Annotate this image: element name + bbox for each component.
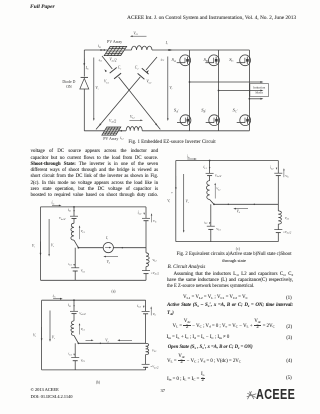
label b iC2: [137, 304, 142, 309]
wire b right edge mid: [145, 314, 147, 344]
svg-text:Vs: Vs: [51, 244, 54, 249]
svg-text:SB: SB: [204, 57, 208, 63]
svg-text:C2: C2: [135, 66, 139, 71]
wire b rail: [78, 342, 145, 344]
caption (c): [236, 247, 241, 251]
heading B. Circuit Analysis: [168, 265, 206, 271]
wire a branch top seg: [73, 207, 75, 216]
wire leg C: [248, 50, 250, 131]
arrowhead a rail current: [121, 247, 123, 249]
junction node a rail left: [78, 247, 80, 249]
label a Ii: [105, 236, 108, 241]
junction node b rail left: [78, 342, 80, 344]
wire a top edge: [41, 206, 147, 208]
capacitor a C1: [71, 268, 79, 271]
label VL1 top: [133, 31, 138, 36]
svg-text:iC2: iC2: [138, 211, 143, 216]
label a Vi: [32, 244, 35, 249]
label Iin: [85, 66, 90, 71]
svg-text:Vdc/2: Vdc/2: [79, 311, 86, 316]
label c VC2: [285, 174, 289, 179]
junction node phase C: [249, 98, 251, 100]
wire c bottom edge: [176, 241, 278, 243]
wire a rail to C1: [74, 248, 76, 268]
svg-text:Ii: Ii: [165, 41, 168, 46]
label SA: [172, 57, 176, 63]
label PV Array top: [107, 39, 122, 44]
arrowhead c iin: [194, 158, 197, 160]
label Vi fig1: [169, 86, 172, 91]
svg-text:(c): (c): [236, 247, 241, 251]
wire a right edge mid: [145, 221, 147, 253]
label a i_in: [52, 201, 56, 206]
svg-text:VL2: VL2: [285, 216, 290, 221]
label b iL1: [68, 303, 71, 308]
wire a bottom edge: [41, 279, 147, 281]
svg-text:SC′: SC′: [233, 108, 238, 114]
wire b C1 to bottom: [74, 361, 76, 370]
label c i_in: [187, 154, 191, 159]
svg-text:VC2: VC2: [146, 80, 152, 85]
label c iL1: [203, 165, 206, 170]
label b VC2: [153, 312, 157, 317]
wire a Vd arrow shaft: [105, 256, 119, 258]
junction node phase B: [218, 90, 220, 92]
arrowhead c iC2 down: [276, 168, 277, 170]
wire a left edge: [40, 207, 42, 280]
junction node phase A: [189, 81, 191, 83]
inductor b L1: [71, 321, 74, 336]
arrowhead phase A: [260, 81, 263, 83]
label b VC1: [81, 358, 86, 363]
arrowhead a iC1 down: [73, 264, 74, 266]
svg-text:VC1: VC1: [81, 269, 86, 274]
label a Vs: [51, 244, 54, 249]
capacitor b C1: [71, 358, 79, 361]
wire diagonal D2 upper: [146, 57, 157, 70]
svg-text:C1: C1: [118, 66, 122, 71]
svg-text:Vdc/2: Vdc/2: [109, 58, 116, 63]
equation 5: [167, 373, 205, 384]
wire c rail to C1: [210, 204, 212, 226]
arrowhead Iin down: [83, 63, 85, 66]
arrowhead c rail current 1: [227, 204, 229, 206]
page number 37: [161, 388, 165, 393]
label PV Array bottom: [103, 136, 118, 141]
wire b rail to C1: [74, 343, 76, 357]
right column paragraph: [174, 272, 294, 278]
transistor SC': [237, 115, 251, 126]
arrowhead c rail current 2: [253, 204, 255, 206]
arrowhead b iC2 down: [143, 306, 145, 308]
heading Active State: [167, 303, 293, 309]
svg-text:VC1: VC1: [81, 358, 86, 363]
arrowhead b VC2 up: [150, 306, 152, 308]
arrowhead c Vs down: [183, 230, 185, 232]
current source Ii: [103, 243, 113, 253]
wire b coil to rbcap: [145, 355, 147, 365]
wire VL1 arrow shaft: [132, 35, 147, 37]
svg-text:=Vdc/2: =Vdc/2: [150, 365, 159, 370]
wire bottom bus right segment: [142, 130, 249, 132]
transistor SB': [206, 115, 220, 126]
wire leg B: [218, 50, 220, 131]
induction motor box: [250, 84, 269, 97]
wire c Vs measure: [183, 174, 185, 231]
arrowhead a iC2 down: [143, 213, 145, 215]
wire c iin arrow shaft: [187, 158, 195, 160]
label c VL2: [285, 216, 290, 221]
svg-text:Vs: Vs: [186, 200, 189, 205]
label a Vdc/2 upper: [59, 216, 66, 221]
svg-text:Motor: Motor: [255, 91, 263, 95]
wire top bus left segment: [84, 49, 131, 51]
ACEEE logo: [256, 387, 295, 404]
wire left edge lower: [83, 89, 85, 131]
wire a rbcap to bottom: [145, 274, 147, 281]
wire c coil to rbcap: [277, 224, 279, 230]
arrowhead a Vs down: [48, 254, 50, 256]
caption (a): [112, 289, 117, 293]
arrowhead c VC2 up: [283, 168, 285, 170]
svg-text:Vs: Vs: [95, 86, 98, 91]
wire a coil to rbcap: [145, 267, 147, 271]
wire Iin arrow shaft: [83, 59, 85, 65]
capacitor c C1: [207, 226, 215, 229]
svg-text:VL2: VL2: [152, 348, 157, 353]
label b Vdc/2 upper: [79, 311, 86, 316]
arrowhead b iL1 down: [73, 305, 75, 307]
svg-text:VC: VC: [285, 174, 289, 179]
wire c rbcap to bottom: [277, 233, 279, 242]
junction node dc-link top: [168, 49, 170, 51]
label c plus: [171, 191, 173, 195]
inductor c L2: [278, 211, 281, 224]
label iC2 diag: [161, 57, 165, 62]
arrowhead iC1 up-left: [104, 69, 107, 72]
inductor c L1: [206, 181, 209, 200]
caption (b): [96, 380, 101, 384]
arrowhead phase C: [260, 98, 263, 100]
svg-text:VC1: VC1: [104, 80, 109, 85]
arrowhead Ii right: [170, 49, 173, 51]
label C1: [118, 66, 122, 71]
svg-text:VC: VC: [153, 219, 157, 224]
svg-text:Vi: Vi: [169, 86, 172, 91]
label VL2 bottom: [130, 115, 135, 120]
svg-text:Vdc/2: Vdc/2: [215, 173, 222, 178]
label c VC1: [216, 227, 221, 232]
arrowhead b Vi down: [41, 338, 43, 341]
arrowhead iC2 up-right: [146, 70, 149, 73]
svg-text:Vi: Vi: [33, 334, 36, 339]
wire c VL1 arrow: [214, 184, 216, 198]
capacitor C1 plate 1: [110, 68, 117, 74]
wire b branch top seg: [73, 300, 75, 311]
wire c coil to rail jog: [210, 200, 214, 205]
diode D: [80, 77, 89, 89]
wire diagonal D2 lower: [96, 77, 140, 129]
arrowhead a Vi down: [40, 253, 42, 256]
transistor SA': [177, 115, 191, 126]
label c VL1: [216, 187, 220, 192]
svg-text:Vd: Vd: [107, 260, 111, 265]
svg-text:Vdc/2: Vdc/2: [59, 216, 66, 221]
wire a C1 to bottom: [74, 271, 76, 280]
label Ii: [165, 41, 168, 46]
wire a Vi arrow shaft: [40, 242, 42, 255]
label a VL1: [81, 229, 85, 234]
wire b bottom edge: [42, 369, 146, 371]
label a Vd: [107, 260, 111, 265]
arrowhead Vs down: [93, 118, 95, 121]
wire a right edge upper: [145, 207, 147, 218]
arrowhead D2 lower: [99, 123, 102, 126]
svg-text:SA′: SA′: [174, 108, 179, 114]
arrowhead current source: [109, 247, 111, 249]
arrowhead iL1 right: [101, 49, 104, 51]
arrowhead c Vd left: [233, 208, 236, 210]
svg-text:Vi: Vi: [167, 199, 170, 204]
label SB: [204, 57, 208, 63]
wire diagonal D1 upper: [102, 56, 112, 69]
svg-text:SA: SA: [172, 57, 176, 63]
label Vdc/2 bottom: [109, 119, 116, 124]
svg-text:iC1: iC1: [68, 262, 72, 267]
svg-text:VL2: VL2: [152, 258, 157, 263]
wire top bus right segment: [152, 49, 249, 51]
svg-text:Iin: Iin: [85, 66, 90, 71]
label c Vdc/2 lower: [283, 230, 292, 235]
wire Vi measure: [167, 57, 169, 120]
svg-text:Ii: Ii: [105, 236, 108, 241]
svg-text:Vs: Vs: [52, 336, 55, 341]
arrowhead VL1 left: [130, 35, 133, 37]
label c iC2: [270, 166, 275, 171]
wire c Vi arrow shaft: [175, 176, 177, 189]
capacitor c C2: [274, 173, 282, 175]
svg-text:=Vdc/2: =Vdc/2: [151, 271, 160, 276]
wire b rbcap to bottom: [145, 367, 147, 370]
wire c left edge: [175, 161, 177, 242]
label a iL1: [68, 208, 71, 213]
label a Vdc/2 lower: [151, 271, 160, 276]
wire b cap to coil: [73, 314, 75, 321]
label a VC1: [81, 269, 86, 274]
svg-text:iin: iin: [187, 154, 191, 159]
label c iC1: [204, 220, 208, 225]
arrowhead b rail current: [99, 343, 101, 345]
svg-text:iin: iin: [52, 201, 56, 206]
wire c C1 to bottom: [210, 229, 212, 241]
svg-text:iC2: iC2: [161, 57, 165, 62]
arrowhead Vi down: [167, 118, 169, 121]
wire a rail: [78, 247, 146, 249]
wire c cap to coil: [209, 176, 211, 181]
label VC1: [104, 80, 109, 85]
label iL2: [120, 136, 124, 141]
capacitor c Vdc/2 upper: [206, 173, 214, 175]
wire diagonal D1 lower: [119, 77, 161, 129]
capacitor C2 plate 2: [138, 73, 145, 79]
arrowhead b iin: [60, 298, 63, 300]
capacitor C2 plate 1: [142, 68, 149, 74]
label a iC1: [68, 262, 72, 267]
label C2: [135, 66, 139, 71]
svg-text:VL2: VL2: [130, 115, 135, 120]
wire b Vd arrow shaft: [119, 339, 133, 341]
PV array bottom panel: [102, 127, 121, 135]
label Vs fig1: [95, 86, 98, 91]
equation 3: [167, 335, 230, 341]
svg-text:Vd: Vd: [237, 209, 241, 214]
label b Vi: [33, 334, 36, 339]
inductor L1: [132, 46, 153, 50]
wire left edge upper: [83, 50, 85, 77]
svg-text:=Vdc/2: =Vdc/2: [283, 230, 292, 235]
heading Open State: [168, 345, 253, 351]
junction node b branch top: [73, 299, 75, 301]
arrowhead phase B: [260, 90, 263, 92]
inductor b L2: [146, 343, 149, 354]
svg-text:iC2: iC2: [270, 166, 275, 171]
wire c VC2 arrow: [283, 169, 285, 177]
label b VL1: [81, 327, 85, 332]
label ON: [66, 85, 72, 89]
label SA': [174, 108, 179, 114]
svg-text:VC: VC: [153, 312, 157, 317]
capacitor b C2: [142, 311, 150, 313]
arrowhead b Vd right tip: [91, 340, 93, 342]
svg-text:iL1: iL1: [98, 44, 101, 49]
wire c Vd arrow shaft: [235, 208, 249, 210]
svg-text:(a): (a): [112, 289, 117, 293]
wire phase C to motor: [249, 98, 261, 100]
equation 2: [173, 320, 275, 331]
junction node a branch top: [73, 206, 75, 208]
arrowhead a iin: [59, 205, 62, 207]
arrowhead a VL1 up: [79, 225, 81, 227]
svg-text:Induction: Induction: [253, 86, 265, 90]
wire a Vs measure: [48, 219, 50, 255]
svg-text:VL1: VL1: [133, 31, 138, 36]
wire b top edge: [42, 299, 146, 301]
label a VC2: [153, 219, 157, 224]
inductor a L1: [71, 223, 74, 240]
capacitor a Vdc/2 upper: [70, 216, 78, 218]
svg-text:VL1: VL1: [81, 229, 85, 234]
wire a cap to coil: [73, 219, 75, 224]
svg-text:VC1: VC1: [216, 227, 221, 232]
svg-text:iL1: iL1: [68, 208, 71, 213]
capacitor a C2: [142, 218, 150, 220]
wire b VC2 arrow: [150, 308, 152, 316]
wire a iin arrow shaft: [52, 204, 60, 206]
capacitor b Vdc/2 upper: [70, 311, 78, 313]
arrowhead iL2 into panel: [119, 130, 122, 132]
svg-text:iC1: iC1: [99, 58, 103, 63]
svg-text:+: +: [171, 191, 173, 195]
label c Vs: [186, 200, 189, 205]
caption Fig.2 line 2: [169, 258, 299, 263]
header: Full Paper: [30, 4, 55, 10]
label SC': [233, 108, 238, 114]
junction node c rail left: [213, 203, 215, 205]
transistor SC: [237, 55, 251, 66]
wire phase A to motor: [190, 81, 262, 83]
arrowhead c iL1 down: [209, 167, 211, 169]
inductor L2: [126, 127, 142, 131]
svg-text:iL1: iL1: [68, 303, 71, 308]
wire b Vi arrow shaft: [41, 327, 43, 340]
svg-text:VL1: VL1: [81, 327, 85, 332]
wire Vs measure: [93, 58, 95, 120]
header: journal line: [127, 15, 296, 21]
arrowhead c VL1 up: [214, 183, 216, 185]
caption Fig.2 line 1: [169, 252, 299, 257]
transistor SA: [177, 55, 191, 66]
label c Vd: [237, 209, 241, 214]
equation 1: [183, 295, 248, 301]
arrowhead b iC1 down: [73, 354, 74, 356]
label SB': [201, 108, 206, 114]
label b Vd: [105, 339, 109, 344]
wire b Vd left shaft: [86, 339, 93, 341]
label b Vs: [52, 336, 55, 341]
svg-text:SC: SC: [229, 57, 233, 63]
capacitor a Vdc/2 lower: [142, 271, 150, 274]
label a VL2: [152, 258, 157, 263]
ACEEE logo star mark: [247, 391, 257, 399]
svg-text:iC1: iC1: [68, 352, 72, 357]
svg-text:iin: iin: [53, 294, 57, 299]
wire a VC2 arrow: [151, 215, 153, 223]
svg-text:ON: ON: [66, 85, 72, 89]
label b i_in: [53, 294, 57, 299]
wire b Vs measure: [49, 311, 51, 341]
label iL1 top: [98, 44, 101, 49]
arrowhead D1 lower: [155, 123, 158, 126]
wire phase B to motor: [219, 90, 262, 92]
label a iC2: [138, 211, 143, 216]
inductor a L2: [146, 253, 149, 267]
capacitor b Vdc/2 lower: [142, 364, 150, 367]
wire bottom bus left segment: [84, 130, 126, 132]
label c Vi: [167, 199, 170, 204]
junction node c branch top: [209, 160, 211, 162]
PV array top panel: [104, 46, 127, 55]
capacitor C1 plate 2: [114, 73, 121, 79]
wire c branch top seg: [209, 161, 211, 174]
wire c right edge mid: [277, 176, 279, 211]
svg-text:PV Array: PV Array: [103, 136, 118, 141]
label iC1 diag: [99, 58, 103, 63]
wire c right edge upper: [277, 161, 279, 174]
wire a VL1 arrow: [79, 227, 81, 240]
label b Vdc/2 lower: [150, 365, 159, 370]
svg-text:PV Array: PV Array: [107, 39, 122, 44]
wire b coil to rail jog: [74, 336, 78, 344]
transistor SB: [205, 55, 219, 66]
arrowhead b Vd left: [117, 339, 120, 341]
wire c rail: [214, 203, 278, 205]
junction node top-left of panel: [103, 49, 105, 51]
arrowhead c iC1 down: [209, 222, 210, 224]
arrowhead a Vd left: [103, 256, 106, 258]
capacitor c Vdc/2 lower: [274, 230, 282, 233]
wire a coil to rail jog: [74, 240, 78, 248]
svg-text:VL1: VL1: [216, 187, 220, 192]
